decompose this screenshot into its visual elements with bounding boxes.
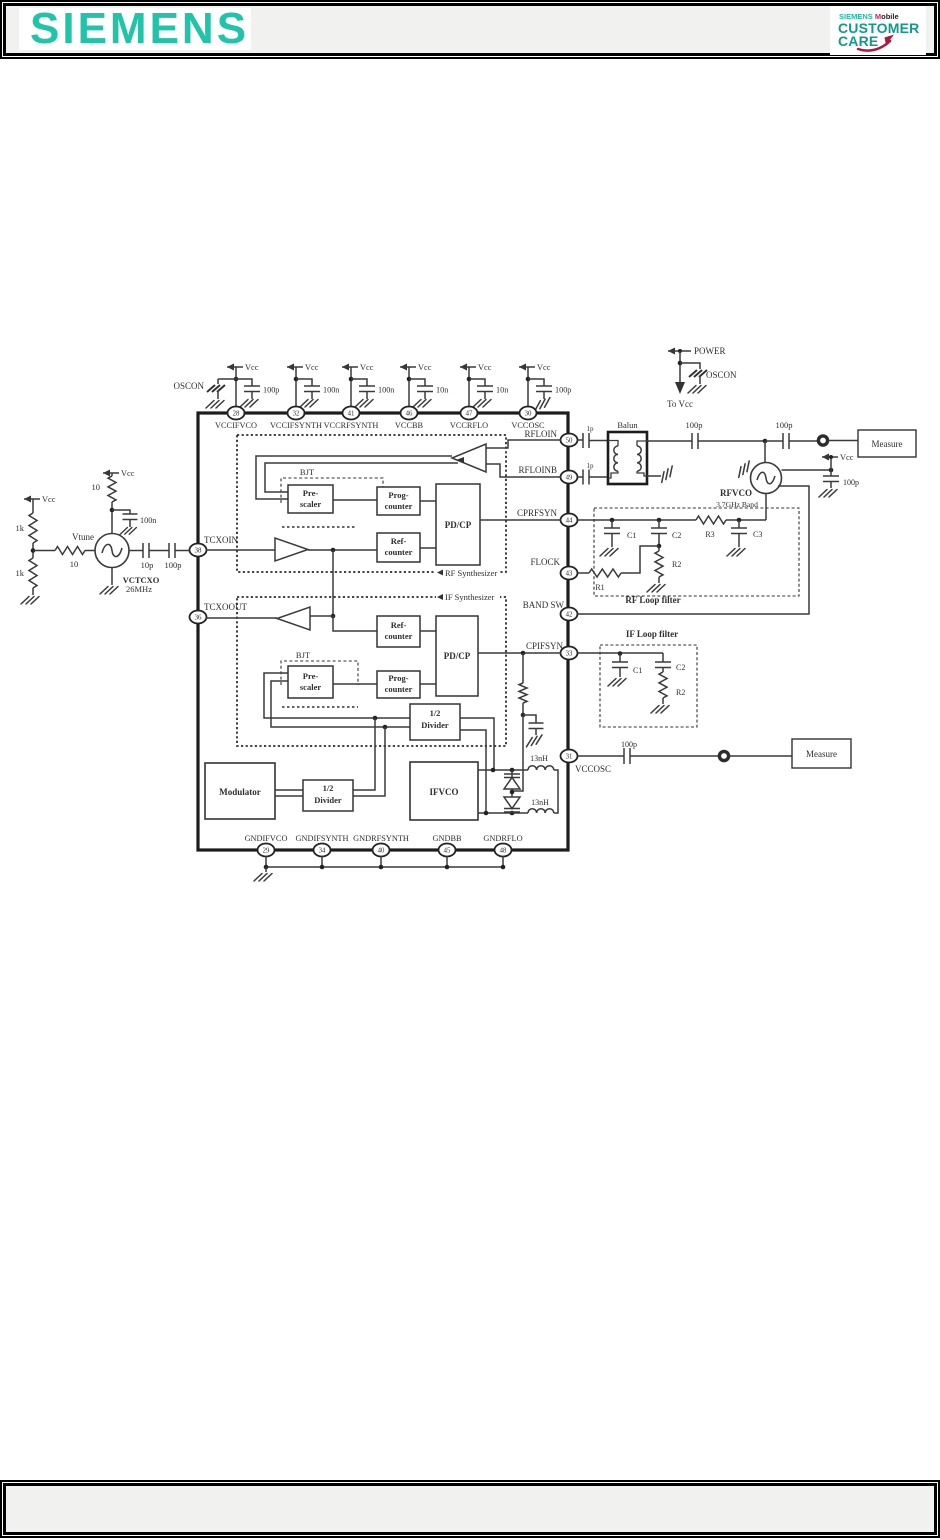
pin 40 GNDRFSYNTH	[353, 834, 409, 857]
wire R1 to C2 node	[621, 546, 659, 573]
svg-text:Balun: Balun	[617, 420, 638, 430]
junction RC node	[521, 713, 526, 718]
wire junction to IF ref-counter	[333, 616, 377, 631]
block 1/2 Divider (BB)	[303, 780, 353, 811]
svg-text:C3: C3	[753, 530, 762, 539]
pin 32 VCCIFSYNTH	[270, 407, 322, 431]
svg-text:100p: 100p	[843, 478, 859, 487]
svg-text:31: 31	[566, 754, 573, 761]
label CPIFSYN	[526, 641, 564, 651]
wire divider out B	[460, 730, 486, 813]
svg-text:FLOCK: FLOCK	[530, 557, 560, 567]
svg-text:C2: C2	[676, 663, 685, 672]
wire buffer out to prescaler B	[265, 463, 458, 492]
svg-text:49: 49	[566, 475, 573, 482]
svg-text:1/2: 1/2	[323, 783, 334, 793]
svg-text:VCCRFSYNTH: VCCRFSYNTH	[324, 421, 379, 430]
RF Synthesizer block dashed box	[237, 435, 506, 578]
svg-text:Vcc: Vcc	[121, 469, 135, 478]
svg-text:48: 48	[500, 848, 507, 855]
ground bus wire	[266, 866, 503, 868]
svg-text:Vcc: Vcc	[418, 363, 432, 372]
block PD/CP (RF)	[436, 484, 480, 565]
svg-text:Pre-: Pre-	[303, 488, 319, 498]
svg-text:IFVCO: IFVCO	[430, 787, 459, 797]
svg-text:PD/CP: PD/CP	[445, 520, 472, 530]
svg-text:100n: 100n	[378, 386, 394, 395]
ground at VCTCXO	[100, 568, 118, 595]
wire IFVCO rail top	[478, 769, 528, 771]
svg-text:VCCIFSYNTH: VCCIFSYNTH	[270, 421, 322, 430]
junction node IF ref	[331, 614, 336, 619]
svg-text:47: 47	[466, 411, 473, 418]
resistor 1k lower	[16, 558, 38, 595]
svg-text:45: 45	[444, 848, 451, 855]
svg-text:Pre-: Pre-	[303, 671, 319, 681]
wire junction to IF buffer	[310, 615, 333, 617]
svg-text:To Vcc: To Vcc	[667, 399, 693, 409]
inductor L1 13nH	[528, 754, 554, 770]
svg-text:13nH: 13nH	[530, 754, 548, 763]
resistor below CPIFSYN	[519, 653, 527, 715]
svg-text:43: 43	[566, 571, 573, 578]
svg-text:CPRFSYN: CPRFSYN	[517, 508, 558, 518]
resistor R2 (IF)	[651, 672, 685, 713]
pin 45 GNDBB	[432, 834, 462, 857]
resistor 10 Vtune	[55, 532, 94, 569]
svg-text:26MHz: 26MHz	[126, 584, 152, 594]
svg-text:29: 29	[263, 848, 270, 855]
pin 42	[561, 608, 578, 621]
wire pin 48 stub	[502, 856, 504, 867]
svg-text:Ref-: Ref-	[391, 620, 407, 630]
decoupling cap 100n and Vcc at pin 41	[342, 363, 394, 407]
junction rail bottom b	[510, 811, 515, 816]
svg-text:R3: R3	[705, 530, 714, 539]
oscillator RFVCO	[716, 463, 781, 510]
capacitor 100n at VCTCXO	[112, 510, 156, 534]
svg-text:VCCBB: VCCBB	[395, 421, 424, 430]
svg-text:BAND SW: BAND SW	[523, 600, 565, 610]
pin 46 VCCBB	[395, 407, 424, 431]
pin 47 VCCRFLO	[450, 407, 488, 431]
dashed line under RF prescaler	[282, 526, 357, 528]
svg-text:30: 30	[525, 411, 532, 418]
wire to connector	[789, 440, 818, 442]
junction at pin 45 bus	[445, 865, 450, 870]
svg-text:100n: 100n	[140, 516, 156, 525]
svg-text:R1: R1	[595, 583, 604, 592]
junction C2-R2 node	[657, 544, 662, 549]
wire RFVCO to BANDSW	[578, 486, 810, 614]
svg-text:10: 10	[70, 559, 79, 569]
pin 31	[561, 750, 578, 763]
wire RFLOIN to buffer	[486, 440, 561, 448]
wire divider BB tap A	[353, 718, 375, 790]
RF Loop filter dashed box	[594, 508, 799, 605]
connector J1	[818, 436, 827, 445]
svg-text:50: 50	[566, 438, 573, 445]
svg-text:VCCOSC: VCCOSC	[575, 764, 611, 774]
svg-text:TCXOIN: TCXOIN	[204, 535, 238, 545]
varactor diode D2	[504, 797, 520, 813]
junction C1 (IF)	[618, 651, 623, 656]
svg-text:TCXOOUT: TCXOOUT	[204, 602, 247, 612]
svg-text:scaler: scaler	[300, 499, 321, 509]
capacitor 1p at RFLOINB	[578, 462, 609, 485]
svg-text:OSCON: OSCON	[173, 381, 204, 391]
svg-text:RFVCO: RFVCO	[720, 488, 752, 498]
junction VCTCXO supply	[110, 508, 115, 513]
capacitor 100p at VCCOSC out	[621, 740, 637, 764]
label RFLOIN	[524, 429, 557, 439]
wire tcxo vertical to IF	[332, 550, 334, 616]
pin 36 TCXOOUT	[190, 602, 248, 624]
inductor L2 13nH	[528, 798, 554, 813]
Vcc arrow RFVCO	[822, 453, 854, 470]
wire RFVCO to Vcc node	[782, 469, 832, 471]
svg-text:GNDRFLO: GNDRFLO	[483, 834, 522, 843]
pin 48 GNDRFLO	[483, 834, 522, 857]
junction divider tap B	[383, 725, 388, 730]
svg-text:Vcc: Vcc	[305, 363, 319, 372]
svg-text:Vcc: Vcc	[42, 495, 56, 504]
svg-text:VCCIFVCO: VCCIFVCO	[215, 421, 257, 430]
svg-text:1k: 1k	[16, 523, 25, 533]
svg-text:Modulator: Modulator	[219, 787, 261, 797]
decoupling cap 10n and Vcc at pin 46	[400, 363, 448, 407]
svg-text:1k: 1k	[16, 568, 25, 578]
wire to junction	[698, 440, 765, 442]
svg-text:RF Loop filter: RF Loop filter	[625, 595, 680, 605]
svg-text:CPIFSYN: CPIFSYN	[526, 641, 564, 651]
svg-text:counter: counter	[385, 684, 413, 694]
junction Vcc node RFVCO	[829, 468, 834, 473]
svg-text:Vcc: Vcc	[840, 453, 854, 462]
svg-text:32: 32	[293, 411, 300, 418]
pin 34 GNDIFSYNTH	[295, 834, 348, 857]
wire pin43 to R1	[578, 572, 590, 574]
svg-text:100p: 100p	[263, 386, 279, 395]
wire modulator to divider B	[275, 795, 303, 797]
svg-text:10n: 10n	[496, 386, 508, 395]
junction C1	[610, 518, 615, 523]
svg-text:33: 33	[566, 651, 573, 658]
wire PD/CP to pin 44 CPRFSYN	[480, 519, 561, 521]
capacitor 100p TCXO	[165, 543, 182, 570]
capacitor 100p RF out 2	[765, 420, 793, 449]
block 1/2 Divider (IF)	[410, 704, 460, 740]
wire pin38 to buffer	[206, 549, 275, 551]
svg-text:Divider: Divider	[421, 720, 449, 730]
svg-text:41: 41	[348, 411, 355, 418]
junction divider tap A	[373, 716, 378, 721]
block Pre-scaler (IF)	[288, 666, 333, 698]
svg-text:Vcc: Vcc	[537, 363, 551, 372]
junction Vtune	[31, 543, 36, 558]
wire IFVCO rail bottom	[478, 812, 528, 814]
svg-text:counter: counter	[385, 547, 413, 557]
junction CPIFSYN branch	[521, 651, 526, 656]
wire divider out A	[460, 718, 494, 770]
capacitor 100p RF out 1	[686, 420, 703, 449]
wire connector to measure	[828, 440, 858, 442]
wire pin44 to R3	[578, 519, 697, 521]
svg-text:100p: 100p	[555, 386, 571, 395]
wire buffer out to prescaler A	[256, 456, 452, 499]
svg-text:RFLOIN: RFLOIN	[524, 429, 557, 439]
pin 38 TCXOIN	[190, 535, 239, 557]
Vcc arrow VCTCXO	[103, 469, 135, 478]
junction POWER	[678, 361, 683, 366]
svg-text:36: 36	[195, 615, 202, 622]
pin 41 VCCRFSYNTH	[324, 407, 379, 431]
wire ref to PD/CP (IF)	[420, 630, 436, 632]
svg-text:PD/CP: PD/CP	[444, 651, 471, 661]
wire buffer to ref-counter	[308, 549, 377, 551]
junction rail bottom a	[484, 811, 489, 816]
svg-text:Prog-: Prog-	[388, 673, 408, 683]
svg-text:IF Synthesizer: IF Synthesizer	[445, 592, 495, 602]
BJT dashed box (RF prescaler)	[281, 467, 383, 503]
capacitor C1 (IF)	[608, 654, 642, 687]
svg-text:Measure: Measure	[872, 439, 903, 449]
Vcc arrow divider	[24, 495, 56, 513]
svg-text:BJT: BJT	[296, 650, 311, 660]
wire junction to RFVCO	[764, 441, 766, 463]
capacitor 1p at RFLOIN	[578, 425, 609, 448]
wire connector to measure 2	[729, 755, 792, 757]
svg-text:10n: 10n	[436, 386, 448, 395]
balun right winding	[637, 441, 647, 476]
wire pin 40 stub	[380, 856, 382, 867]
pin 33	[561, 647, 578, 660]
svg-text:100p: 100p	[686, 420, 703, 430]
resistor 1k upper	[16, 513, 38, 543]
pin 44	[561, 514, 578, 527]
junction C2	[657, 518, 662, 523]
buffer amp TCXOOUT	[277, 607, 310, 630]
svg-text:Measure: Measure	[806, 749, 837, 759]
wire 10p to 100p	[149, 550, 169, 552]
capacitor at RC node	[523, 715, 544, 747]
block Measure (RF)	[858, 430, 916, 457]
wire prog-counter to PD/CP (RF)	[420, 500, 436, 502]
svg-text:scaler: scaler	[300, 682, 321, 692]
svg-text:100n: 100n	[323, 386, 339, 395]
wire balun out	[647, 440, 692, 442]
wire pin 34 stub	[321, 856, 323, 867]
block Measure (IF)	[792, 739, 851, 768]
ground at divider	[21, 597, 39, 605]
wire cap to connector	[630, 755, 719, 757]
svg-text:Divider: Divider	[314, 795, 342, 805]
svg-text:POWER: POWER	[694, 346, 726, 356]
resistor R2 (RF)	[647, 546, 681, 592]
pin 28 VCCIFVCO	[215, 407, 257, 431]
wire VCTCXO out	[129, 550, 143, 552]
IF Synthesizer block dashed box	[237, 592, 506, 746]
svg-text:100p: 100p	[621, 740, 637, 749]
wire prescaler out B to divider	[271, 681, 410, 727]
decoupling cap 100p and Vcc at pin 28	[227, 363, 279, 407]
svg-text:GNDRFSYNTH: GNDRFSYNTH	[353, 834, 409, 843]
label CPRFSYN	[517, 508, 558, 518]
junction at pin 29 bus	[264, 865, 269, 870]
capacitor C1 (RF)	[600, 520, 636, 556]
dashed line under IF prescaler	[282, 706, 358, 708]
svg-text:38: 38	[195, 548, 202, 555]
block Pre-scaler (RF)	[288, 485, 333, 513]
transformer Balun box	[608, 420, 647, 484]
svg-text:44: 44	[566, 518, 573, 525]
wire ref-counter to PD/CP (RF)	[420, 547, 436, 549]
wire RFLOINB to buffer	[486, 464, 561, 477]
ground at RFVCO	[734, 461, 753, 477]
svg-text:Vtune: Vtune	[72, 532, 94, 542]
decoupling cap 100p and Vcc at pin 30	[519, 363, 571, 410]
svg-text:1p: 1p	[587, 425, 595, 433]
svg-text:Vcc: Vcc	[245, 363, 259, 372]
pin 29 GNDIFVCO	[245, 834, 288, 857]
svg-text:34: 34	[319, 848, 326, 855]
wire tank right side	[554, 770, 558, 813]
resistor 10 at VCTCXO supply	[92, 476, 117, 502]
junction RF out	[763, 439, 768, 444]
junction varactor midpoint	[510, 790, 515, 795]
wire PD/CP to pin 33 CPIFSYN	[478, 652, 561, 654]
wire buffer to pin36	[206, 617, 277, 619]
wire R3 to RFVCO node	[726, 519, 766, 521]
svg-text:1/2: 1/2	[430, 708, 441, 718]
svg-text:BJT: BJT	[300, 467, 315, 477]
wire modulator to divider A	[275, 789, 303, 791]
wire prescaler to prog (IF)	[333, 683, 377, 685]
connector J2	[719, 751, 728, 760]
svg-text:Vcc: Vcc	[478, 363, 492, 372]
block Prog-counter (RF)	[377, 487, 420, 515]
capacitor 10p	[141, 543, 154, 570]
label VCCOSC pin31	[575, 764, 611, 774]
To Vcc arrow	[667, 382, 693, 409]
resistor R3	[696, 516, 726, 539]
svg-text:13nH: 13nH	[531, 798, 549, 807]
svg-text:GNDIFSYNTH: GNDIFSYNTH	[295, 834, 348, 843]
SIEMENS logotype	[19, 8, 251, 50]
wire divider BB tap B	[353, 727, 385, 796]
wire to VCTCXO	[85, 550, 95, 552]
block Modulator	[205, 763, 275, 819]
svg-text:46: 46	[406, 411, 413, 418]
resistor R1	[589, 569, 621, 592]
svg-text:GNDIFVCO: GNDIFVCO	[245, 834, 288, 843]
svg-text:10p: 10p	[141, 560, 154, 570]
svg-text:R2: R2	[672, 560, 681, 569]
junction at pin 48 bus	[501, 865, 506, 870]
wire RFVCO to loop filter	[765, 494, 767, 521]
header bar	[0, 0, 940, 59]
svg-text:100p: 100p	[165, 560, 182, 570]
junction rail top b	[510, 768, 515, 773]
pin 30 VCCOSC	[511, 407, 545, 431]
wire tune line to varactors	[512, 715, 523, 791]
ground symbol of ground bus	[254, 867, 272, 881]
wire Vtune	[33, 550, 55, 552]
IC U1 body outline	[198, 413, 568, 850]
svg-text:OSCON: OSCON	[706, 370, 737, 380]
wire prescaler to prog-counter (RF)	[333, 499, 377, 501]
svg-text:RF Synthesizer: RF Synthesizer	[445, 568, 497, 578]
balun left winding	[608, 441, 618, 479]
svg-text:RFLOINB: RFLOINB	[518, 465, 557, 475]
svg-text:28: 28	[233, 411, 240, 418]
block PD/CP (IF)	[436, 616, 478, 696]
junction at pin 34 bus	[320, 865, 325, 870]
block Ref-counter (IF)	[377, 616, 420, 647]
label BAND SW	[523, 600, 565, 610]
footer bar	[0, 1480, 940, 1538]
BJT dashed box (IF prescaler)	[281, 650, 358, 685]
wire pin31 out	[578, 755, 625, 757]
capacitor C2 (RF)	[651, 520, 681, 546]
svg-text:1p: 1p	[587, 462, 595, 470]
svg-text:C2: C2	[672, 531, 681, 540]
svg-text:10: 10	[92, 482, 101, 492]
wire pin 45 stub	[446, 856, 448, 867]
svg-text:IF Loop filter: IF Loop filter	[626, 629, 678, 639]
junction C3	[737, 518, 742, 523]
op-amp RF LO input buffer	[452, 444, 486, 472]
svg-text:C1: C1	[633, 666, 642, 675]
wire balun ground lead	[647, 475, 661, 477]
block Ref-counter (RF)	[377, 533, 420, 562]
svg-text:Ref-: Ref-	[391, 536, 407, 546]
OSCON capacitor at POWER	[680, 363, 737, 393]
svg-text:100p: 100p	[776, 420, 793, 430]
svg-text:R2: R2	[676, 688, 685, 697]
pin 49	[561, 471, 578, 484]
svg-text:40: 40	[378, 848, 385, 855]
capacitor C2 (IF)	[655, 653, 685, 672]
svg-text:Prog-: Prog-	[388, 490, 408, 500]
decoupling cap 10n and Vcc at pin 47	[460, 363, 508, 407]
IF Loop filter dashed box	[600, 629, 697, 727]
wire prog to PD/CP (IF)	[420, 683, 436, 685]
svg-text:counter: counter	[385, 631, 413, 641]
svg-text:42: 42	[566, 612, 573, 619]
wire pin33 to filter	[578, 652, 664, 654]
svg-text:C1: C1	[627, 531, 636, 540]
oscillator VCTCXO	[95, 534, 160, 595]
buffer amp TCXOIN	[275, 538, 308, 561]
wire POWER down	[679, 351, 681, 382]
block Prog-counter (IF)	[377, 671, 420, 698]
svg-text:Vcc: Vcc	[360, 363, 374, 372]
POWER supply arrow	[668, 346, 726, 356]
pin 50	[561, 434, 578, 447]
varactor diode D1	[504, 770, 520, 797]
capacitor C3 (RF)	[727, 520, 762, 556]
junction node ref line	[331, 548, 336, 553]
block IFVCO	[410, 762, 478, 820]
junction rail top a	[491, 768, 496, 773]
capacitor 100p at RFVCO Vcc	[819, 470, 859, 497]
junction at pin 40 bus	[379, 865, 384, 870]
svg-text:GNDBB: GNDBB	[432, 834, 462, 843]
label RFLOINB	[518, 465, 557, 475]
svg-text:counter: counter	[385, 501, 413, 511]
label FLOCK	[530, 557, 560, 567]
